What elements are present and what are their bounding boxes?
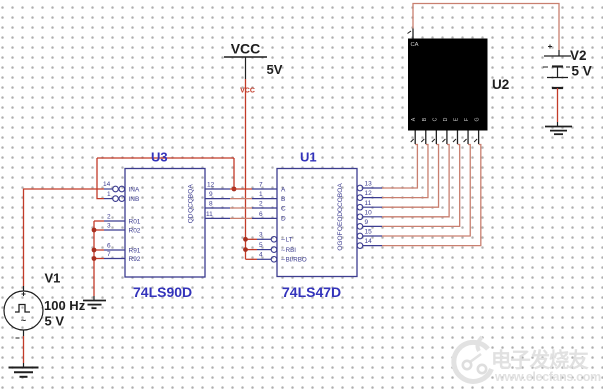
svg-text:R02: R02 [129,227,141,234]
U3 pin name R01 [129,218,141,225]
svg-text:QD: QD [188,213,195,223]
U1 pin number 13 [365,181,373,188]
wire U3 QA to U1 A [230,188,252,190]
U3 pin number 9 [209,191,213,198]
U2 bottom pin stub 6 [467,131,469,145]
svg-text:11: 11 [206,211,213,218]
U2 bottom pin number mark 4 [442,139,445,142]
svg-text:www.elecfans.com: www.elecfans.com [494,370,601,384]
svg-text:OF: OF [337,231,344,240]
U1 pin 4 ~BI/RBO stub [257,257,277,263]
U1 pin name A [281,186,286,193]
U2 segment pin name F [464,118,470,121]
U3 pin 7 R92 stub [104,258,125,260]
svg-text:9: 9 [209,191,213,198]
svg-text:13: 13 [365,181,373,188]
U3 pin name QA (rotated) [188,184,195,194]
svg-text:A: A [281,186,286,193]
battery V2 plate 2 (short) [543,65,570,68]
svg-text:14: 14 [103,181,111,188]
svg-text:5V: 5V [267,62,283,77]
U1 pin number 15 [365,229,373,236]
U2 segment pin name A [411,117,417,121]
U1 pin name ~BI/RBO [281,257,307,264]
U2 bottom pin stub 4 [446,131,448,145]
U2 segment pin name D [443,117,449,121]
svg-text:OE: OE [337,221,344,231]
ground under V2 [545,122,572,134]
U3 pin number 3 [107,222,111,229]
svg-text:V1: V1 [45,271,61,286]
U1 pin 14 OG stub [357,243,382,249]
U1 pin number 2 [259,200,263,207]
svg-text:14: 14 [365,238,373,245]
V1 plus polarity mark [22,292,26,296]
U3 pin name R02 [129,227,141,234]
wire feedback right vertical to QA row [233,158,235,189]
svg-text:INB: INB [129,196,140,203]
wire VCC to U1 ~BI/RBO [246,258,258,260]
svg-text:R91: R91 [129,247,141,254]
wire to U3 R91 [94,249,104,251]
U2 bottom pin number mark 7 [474,139,477,142]
svg-text:CA: CA [411,42,419,48]
svg-text:7: 7 [107,251,111,258]
U1 pin number 11 [365,200,372,207]
U1 pin name OC (rotated) [337,202,344,212]
svg-text:5 V: 5 V [45,314,65,329]
svg-text:OA: OA [337,183,344,193]
wire U1 OE to display segment E [382,145,460,227]
wire U3 QB to U1 B [230,198,252,200]
wire U1 OB to display segment B [382,145,428,198]
U2 bottom pin stub 1 [414,131,416,145]
U1 pin name OB (rotated) [337,193,344,202]
U1 pin name ~LT [281,237,293,244]
svg-text:3: 3 [107,222,111,229]
wire feedback left vertical to INB [97,158,104,199]
U3 pin name QB (rotated) [188,194,195,203]
svg-text:U2: U2 [492,77,509,92]
U1 pin number 5 [259,242,263,249]
U3 pin 9 QB stub [205,198,230,200]
voltage source V1 (clock, 100 Hz 5 V) circle body [4,291,43,330]
junction feedback/QA wire [232,187,237,192]
svg-text:6: 6 [259,211,263,218]
U3 pin 3 R02 stub [104,229,125,231]
wire to U3 R92 [94,258,104,260]
battery V2 plate 1 (long) [544,55,571,57]
svg-text:E: E [453,117,459,121]
U2 reference label [492,77,509,92]
U1 pin name OA (rotated) [337,183,344,193]
svg-text:~: ~ [21,316,26,326]
svg-text:R01: R01 [129,218,141,225]
svg-text:∼BI/RBO: ∼BI/RBO [281,257,307,264]
U1 pin number 7 [259,181,263,188]
wire V1 top to node, vertical [23,189,25,287]
wire U2 CA to V2 battery [413,4,559,51]
ground under V1 [9,363,39,377]
battery V2 top stub [558,50,560,56]
U1 pin number 6 [259,211,263,218]
svg-text:D: D [443,117,449,121]
wire U3 QD to U1 D [230,217,252,219]
U2 bottom pin stub 7 [478,131,480,145]
svg-text:G: G [475,117,481,121]
V1 minus polarity mark [16,337,20,339]
junction R02 [92,228,97,233]
V2 plus polarity mark [548,45,552,49]
U3 pin number 12 [207,182,215,189]
svg-text:1: 1 [259,191,263,198]
U1 pin 7 A stub [252,188,277,190]
svg-text:4: 4 [259,252,263,259]
wire VCC to U1 ~LT [246,238,258,240]
svg-text:12: 12 [207,182,215,189]
wire U1 OF to display segment F [382,145,470,237]
U3 pin 2 R01 stub [104,220,125,222]
V2 label [570,48,587,63]
svg-text:U1: U1 [300,150,317,165]
wire VCC to U1 ~RBI [246,249,258,251]
wire to U3 R01 [94,220,104,222]
U1 pin name D [281,216,286,223]
U1 pin number 10 [365,209,373,216]
U1 pin name B [281,196,285,203]
svg-text:QB: QB [188,194,195,203]
svg-text:INA: INA [129,186,141,193]
U1 pin name OG (rotated) [337,241,344,251]
svg-text:OD: OD [337,212,344,222]
U1 pin 12 OB stub [357,195,382,201]
U3 reference label [151,150,168,165]
svg-text:∼RBI: ∼RBI [281,247,297,254]
svg-text:8: 8 [209,201,213,208]
U1 pin number 3 [259,232,263,239]
U1 pin number 9 [365,219,369,226]
svg-text:B: B [281,196,285,203]
U2 top pin CA stub [412,29,414,39]
svg-text:B: B [422,117,428,121]
U3 pin number 2 [107,213,111,220]
wire U1 OA to display segment A [382,145,417,189]
U2 bottom pin number mark 2 [421,139,424,142]
svg-text:6: 6 [107,242,111,249]
svg-text:9: 9 [365,219,369,226]
svg-text:12: 12 [365,190,373,197]
wire U1 OD to display segment D [382,145,449,217]
V1 label [45,271,61,286]
wire U1 OC to display segment C [382,145,439,208]
wire V2 to ground [557,88,559,122]
junction R91 [92,248,97,253]
svg-text:V2: V2 [570,48,587,63]
svg-text:QA: QA [188,184,195,194]
U3 pin number 6 [107,242,111,249]
U3 pin name INA [129,186,141,193]
VCC power symbol bar [224,56,267,58]
U2 segment pin name G [475,117,481,121]
svg-text:电子发烧友: 电子发烧友 [491,348,589,372]
U2 bottom pin stub 3 [435,131,437,145]
U1 pin name OE (rotated) [337,221,344,231]
svg-text:D: D [281,216,286,223]
wire feedback U3 QA to INB, top horizontal [97,157,234,159]
U1 pin 5 ~RBI stub [257,247,277,253]
wire VCC down to U1 LT/RBI/BI pins [245,79,247,259]
U3 pin number 1 [107,191,111,198]
junction VCC/~RBI [243,247,248,252]
U3 pin 12 QA stub [205,188,230,190]
U1 pin 2 C stub [252,207,277,209]
junction R92 [92,256,97,261]
U1 pin 10 OD stub [357,214,382,220]
decoder U1 74LS47D body [277,169,357,277]
U2 pin name CA [411,42,419,48]
svg-text:5: 5 [259,242,263,249]
U3 pin name QD (rotated) [188,213,195,223]
U2 bottom pin stub 5 [456,131,458,145]
junction VCC/~LT [243,237,248,242]
U1 pin name C [281,205,286,212]
net label VCC (red) [240,88,255,95]
svg-text:OG: OG [337,241,344,251]
U1 pin 13 OA stub [357,185,382,191]
svg-text:QC: QC [188,203,195,213]
battery V2 plate 4 (short) [552,87,563,89]
U3 pin 6 R91 stub [104,249,125,251]
U1 pin number 14 [365,238,373,245]
U1 pin name OD (rotated) [337,212,344,222]
wire V1 to U3 INA, horizontal [24,188,105,190]
svg-text:C: C [281,205,286,212]
svg-text:OB: OB [337,193,344,202]
watermark logo and text www.elecfans.com [452,337,601,384]
U1 pin number 1 [259,191,263,198]
U2 bottom pin number mark 3 [432,139,435,142]
U1 reference label [300,150,317,165]
U3 pin 14 INA stub [104,186,125,192]
VCC symbol stem [245,57,247,79]
U2 segment pin name B [422,117,428,121]
U2 bottom pin number mark 6 [464,139,467,142]
U3 pin number 7 [107,251,111,258]
U3 pin number 11 [206,211,213,218]
V1 top terminal stub [23,286,25,291]
U1 pin number 4 [259,252,263,259]
U1 part label 74LS47D [282,284,341,300]
wire U1 OG to display segment G [382,145,481,246]
U3 pin 1 INB stub [104,196,125,202]
U1 pin 3 ~LT stub [257,237,277,243]
svg-text:U3: U3 [151,150,168,165]
svg-text:11: 11 [365,200,372,207]
svg-text:A: A [411,117,417,121]
svg-text:∼LT: ∼LT [281,237,293,244]
U2 bottom pin number mark 5 [453,139,456,142]
U2 bottom pin stub 2 [425,131,427,145]
V2 value label 5 V [572,64,592,79]
U3 pin name R91 [129,247,141,254]
V1 bottom terminal stub [23,330,25,336]
svg-text:10: 10 [365,209,373,216]
U1 pin number 12 [365,190,373,197]
U2 segment pin name E [453,117,459,121]
wire to U3 R02 [94,229,104,231]
VCC label [231,41,261,57]
U2 bottom pin number mark 1 [411,139,414,142]
U3 part label 74LS90D [133,284,192,300]
svg-text:2: 2 [107,213,111,220]
U1 pin name ~RBI [281,247,297,254]
U3 pin 8 QC stub [205,207,230,209]
battery V2 plate 3 (long) [547,77,568,79]
V1 value label 5 V [45,314,65,329]
U3 pin 11 QD stub [205,217,230,219]
ground for U3 reset pins [83,296,106,308]
U3 pin number 14 [103,181,111,188]
svg-text:3: 3 [259,232,263,239]
svg-text:74LS90D: 74LS90D [133,284,192,300]
svg-text:OC: OC [337,202,344,212]
svg-text:1: 1 [107,191,111,198]
U3 pin name QC (rotated) [188,203,195,213]
U1 pin 9 OE stub [357,224,382,230]
seven-segment display U2 body [408,39,488,131]
VCC value label 5V [267,62,283,77]
U1 pin 1 B stub [252,198,277,200]
U1 pin name OF (rotated) [337,231,344,240]
U2 top pin number [408,31,412,34]
svg-text:C: C [432,117,438,121]
wire R01 to ground vertical [93,221,95,296]
U3 pin name R92 [129,256,141,263]
U3 pin number 8 [209,201,213,208]
svg-text:F: F [464,118,470,121]
V1 value label 100 Hz [44,298,86,313]
svg-text:5 V: 5 V [572,64,592,79]
U2 segment pin name C [432,117,438,121]
U1 pin 15 OF stub [357,233,382,239]
U3 pin name INB [129,196,140,203]
svg-text:VCC: VCC [231,41,261,57]
svg-text:2: 2 [259,200,263,207]
svg-text:R92: R92 [129,256,141,263]
svg-text:VCC: VCC [240,88,255,95]
U1 pin 6 D stub [252,217,277,219]
wire V1 bottom to ground [23,336,25,363]
svg-text:100 Hz: 100 Hz [44,298,86,313]
wire U3 QC to U1 C [230,207,252,209]
svg-text:74LS47D: 74LS47D [282,284,341,300]
counter U3 74LS90D body [125,169,205,278]
battery V2 mid stem [557,67,559,78]
svg-text:7: 7 [259,181,263,188]
U1 pin 11 OC stub [357,204,382,210]
svg-text:15: 15 [365,229,373,236]
